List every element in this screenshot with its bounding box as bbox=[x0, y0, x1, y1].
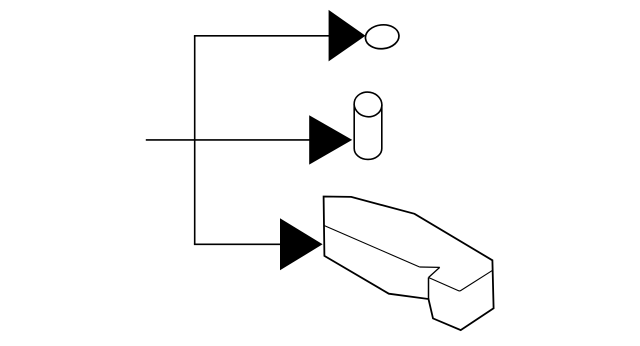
part: cylinder body bbox=[354, 105, 382, 160]
3D block: valley edge bbox=[429, 270, 493, 291]
3D block: notch diagonal edge bbox=[429, 267, 440, 277]
wire: middle branch bbox=[146, 139, 311, 141]
arrow: middle pointer bbox=[309, 115, 352, 164]
wire: vertical trunk bbox=[194, 36, 196, 245]
wire: bottom branch bbox=[194, 243, 282, 245]
3D block: notch vertical edge bbox=[428, 278, 430, 300]
3D block: ridge line bbox=[324, 225, 420, 267]
part: cylinder top ellipse bbox=[352, 90, 384, 119]
arrow: top pointer bbox=[329, 10, 366, 62]
arrow: bottom pointer bbox=[280, 218, 323, 270]
part: 3D block outline bbox=[324, 197, 494, 331]
wire: top branch bbox=[194, 35, 330, 37]
part: grommet (ellipse) bbox=[364, 23, 400, 50]
3D block: notch top edge bbox=[420, 266, 440, 268]
